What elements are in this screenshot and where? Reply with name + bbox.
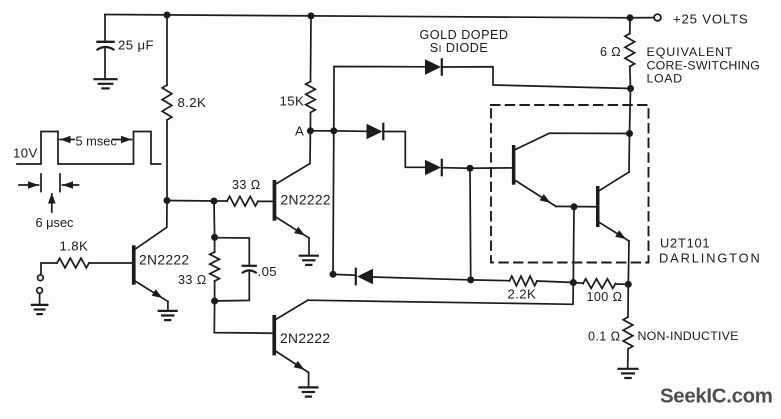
svg-text:SeekIC.com: SeekIC.com	[660, 386, 773, 408]
resistor R6 0.1 ohm non-inductive	[627, 284, 629, 317]
svg-text:8.2K: 8.2K	[178, 95, 207, 110]
node bottom diode tee	[467, 276, 474, 283]
svg-text:U2T101: U2T101	[660, 236, 710, 251]
wire top +25V supply rail	[105, 15, 630, 18]
resistor R3 6 ohm load	[629, 18, 631, 34]
svg-text:CORE-SWITCHING: CORE-SWITCHING	[647, 58, 761, 72]
node 6 ohm bottom junction	[627, 85, 634, 92]
node D3 / base / pulldown junction	[467, 165, 474, 172]
svg-text:1.8K: 1.8K	[60, 239, 89, 254]
wire rail into dashed box to Q2d collector	[628, 134, 631, 173]
wire corner to D4	[333, 273, 356, 276]
wire D3 to Q1d base node	[443, 167, 471, 170]
svg-text:+25 VOLTS: +25 VOLTS	[673, 12, 749, 27]
wire junction to 33 ohm tee	[167, 200, 214, 203]
svg-text:.05: .05	[258, 264, 278, 279]
node RC bottom tee	[211, 298, 218, 305]
transistor Q1d darlington input	[512, 145, 516, 185]
node diode-branch tee	[330, 127, 337, 134]
node darlington collector junction	[626, 130, 633, 137]
ground Q3b emitter	[299, 386, 317, 388]
ground Q1L emitter	[159, 310, 177, 312]
wire D4 to bottom tee	[372, 277, 471, 280]
ground input	[32, 304, 47, 306]
svg-text:2N2222: 2N2222	[281, 192, 331, 207]
node top rail / 15K junction	[308, 12, 315, 19]
resistor R4 2.2K	[510, 276, 538, 286]
capacitor C2 .05	[215, 238, 250, 265]
svg-text:10V: 10V	[13, 146, 38, 161]
svg-text:DARLINGTON: DARLINGTON	[659, 251, 762, 266]
svg-text:SI DIODE: SI DIODE	[430, 41, 489, 55]
pulse width tick marks	[40, 174, 42, 192]
svg-text:15K: 15K	[280, 94, 305, 109]
diode D4 (points left)	[355, 269, 357, 284]
svg-text:LOAD: LOAD	[647, 72, 683, 86]
wire Q1d emitter to Q2d base	[556, 205, 596, 207]
svg-text:6 Ω: 6 Ω	[600, 45, 621, 59]
svg-text:2N2222: 2N2222	[139, 253, 189, 268]
node 33 ohm tee	[211, 198, 218, 205]
wire 2.2K to speedup node	[537, 281, 573, 283]
transistor Q1L 2N2222 input stage	[132, 245, 136, 284]
wire middle diode chain: tee to D2	[334, 130, 366, 132]
wire left loop vertical (tee down to D4)	[332, 131, 335, 274]
wire rail to +25V terminal	[630, 17, 653, 19]
resistor R8 33 ohm (horizontal)	[214, 200, 227, 202]
ground below capacitor	[95, 78, 117, 80]
svg-text:EQUIVALENT: EQUIVALENT	[647, 45, 734, 59]
wire Q3b emitter to ground	[308, 373, 310, 387]
wire node A to diode branch	[310, 130, 333, 132]
wire D2 to D3 (stepped down)	[384, 132, 425, 168]
wire up-branch to gold doped diode	[334, 67, 425, 131]
resistor R2 15K	[310, 16, 313, 82]
node speedup junction (2.2K/100/Q2d base/Q3b collector)	[570, 279, 577, 286]
wire input corner	[41, 263, 57, 274]
svg-text:5 msec: 5 msec	[76, 133, 118, 148]
resistor R5 100 ohm	[573, 282, 583, 285]
diode D1 gold doped Si diode	[425, 59, 441, 74]
arrow width left (points right)	[19, 184, 39, 186]
svg-text:2N2222: 2N2222	[280, 331, 330, 346]
wire Q2d base node down to speedup node	[572, 207, 575, 283]
resistor R1 8.2K	[166, 15, 168, 85]
wire base node to Q1d base	[470, 167, 512, 169]
arrow 6usec up pointer	[51, 194, 53, 212]
resistor R9 33 ohm (vertical)	[214, 237, 216, 252]
diode D3	[425, 160, 441, 175]
wire load to darlington collector rail	[630, 89, 631, 134]
svg-text:100 Ω: 100 Ω	[587, 290, 623, 304]
transistor Q3b 2N2222 bottom	[272, 315, 276, 355]
svg-text:0.1 Ω: 0.1 Ω	[588, 330, 620, 344]
terminal input open circle	[38, 275, 44, 281]
ground below 0.1 ohm	[619, 368, 638, 370]
node loop bottom corner	[330, 271, 337, 278]
svg-text:25 μF: 25 μF	[118, 38, 154, 53]
node top rail / capacitor+8.2K junction	[164, 12, 171, 19]
node top rail / 6 ohm junction	[627, 14, 634, 21]
node emitter/0.1 ohm junction	[625, 281, 632, 288]
node 8.2K / Q1L collector / 33 ohm junction	[164, 197, 171, 204]
svg-text:2.2K: 2.2K	[508, 287, 537, 302]
wire 33 ohm tee down to RC tee	[213, 201, 216, 237]
terminal +25 VOLTS open circle	[654, 14, 661, 21]
wire circle to ground	[39, 294, 41, 304]
transistor Q2d darlington output	[596, 186, 600, 227]
diode D2	[367, 124, 383, 139]
svg-text:NON-INDUCTIVE: NON-INDUCTIVE	[638, 329, 739, 343]
wire RC tee down to Q3b base	[214, 301, 272, 333]
wire base node down to bottom diode wire	[469, 168, 472, 280]
node Q2d base tee	[571, 203, 578, 210]
arrow width right (points left)	[63, 184, 79, 186]
wire Q2m emitter to ground	[308, 238, 310, 255]
svg-text:A: A	[295, 124, 304, 139]
wire Q3b collector long run to speedup node	[308, 283, 574, 305]
svg-text:GOLD DOPED: GOLD DOPED	[420, 28, 509, 42]
node RC top tee	[211, 234, 218, 241]
svg-text:33 Ω: 33 Ω	[178, 273, 207, 287]
capacitor C1 25uF	[104, 15, 106, 41]
svg-text:33 Ω: 33 Ω	[232, 178, 261, 192]
wire Q2d emitter down to junction	[627, 241, 630, 284]
terminal input ground circle	[37, 288, 43, 294]
resistor R7 1.8K	[57, 258, 89, 268]
transistor Q2m 2N2222 middle	[273, 180, 277, 221]
svg-text:6 μsec: 6 μsec	[36, 215, 75, 230]
wire D1 to load bottom (stepped)	[443, 67, 631, 89]
ground Q2m emitter	[300, 255, 318, 257]
arrow 5msec right	[113, 139, 132, 141]
wire bottom tee to 2.2K	[471, 279, 510, 282]
arrow 5msec left	[60, 139, 74, 141]
wire Q1L emitter to ground	[167, 302, 169, 311]
dashed box U2T101 darlington	[491, 105, 649, 263]
node A	[307, 127, 314, 134]
pulse waveform input 10V	[17, 132, 161, 165]
wire 1.8K to Q1L base	[89, 262, 132, 264]
